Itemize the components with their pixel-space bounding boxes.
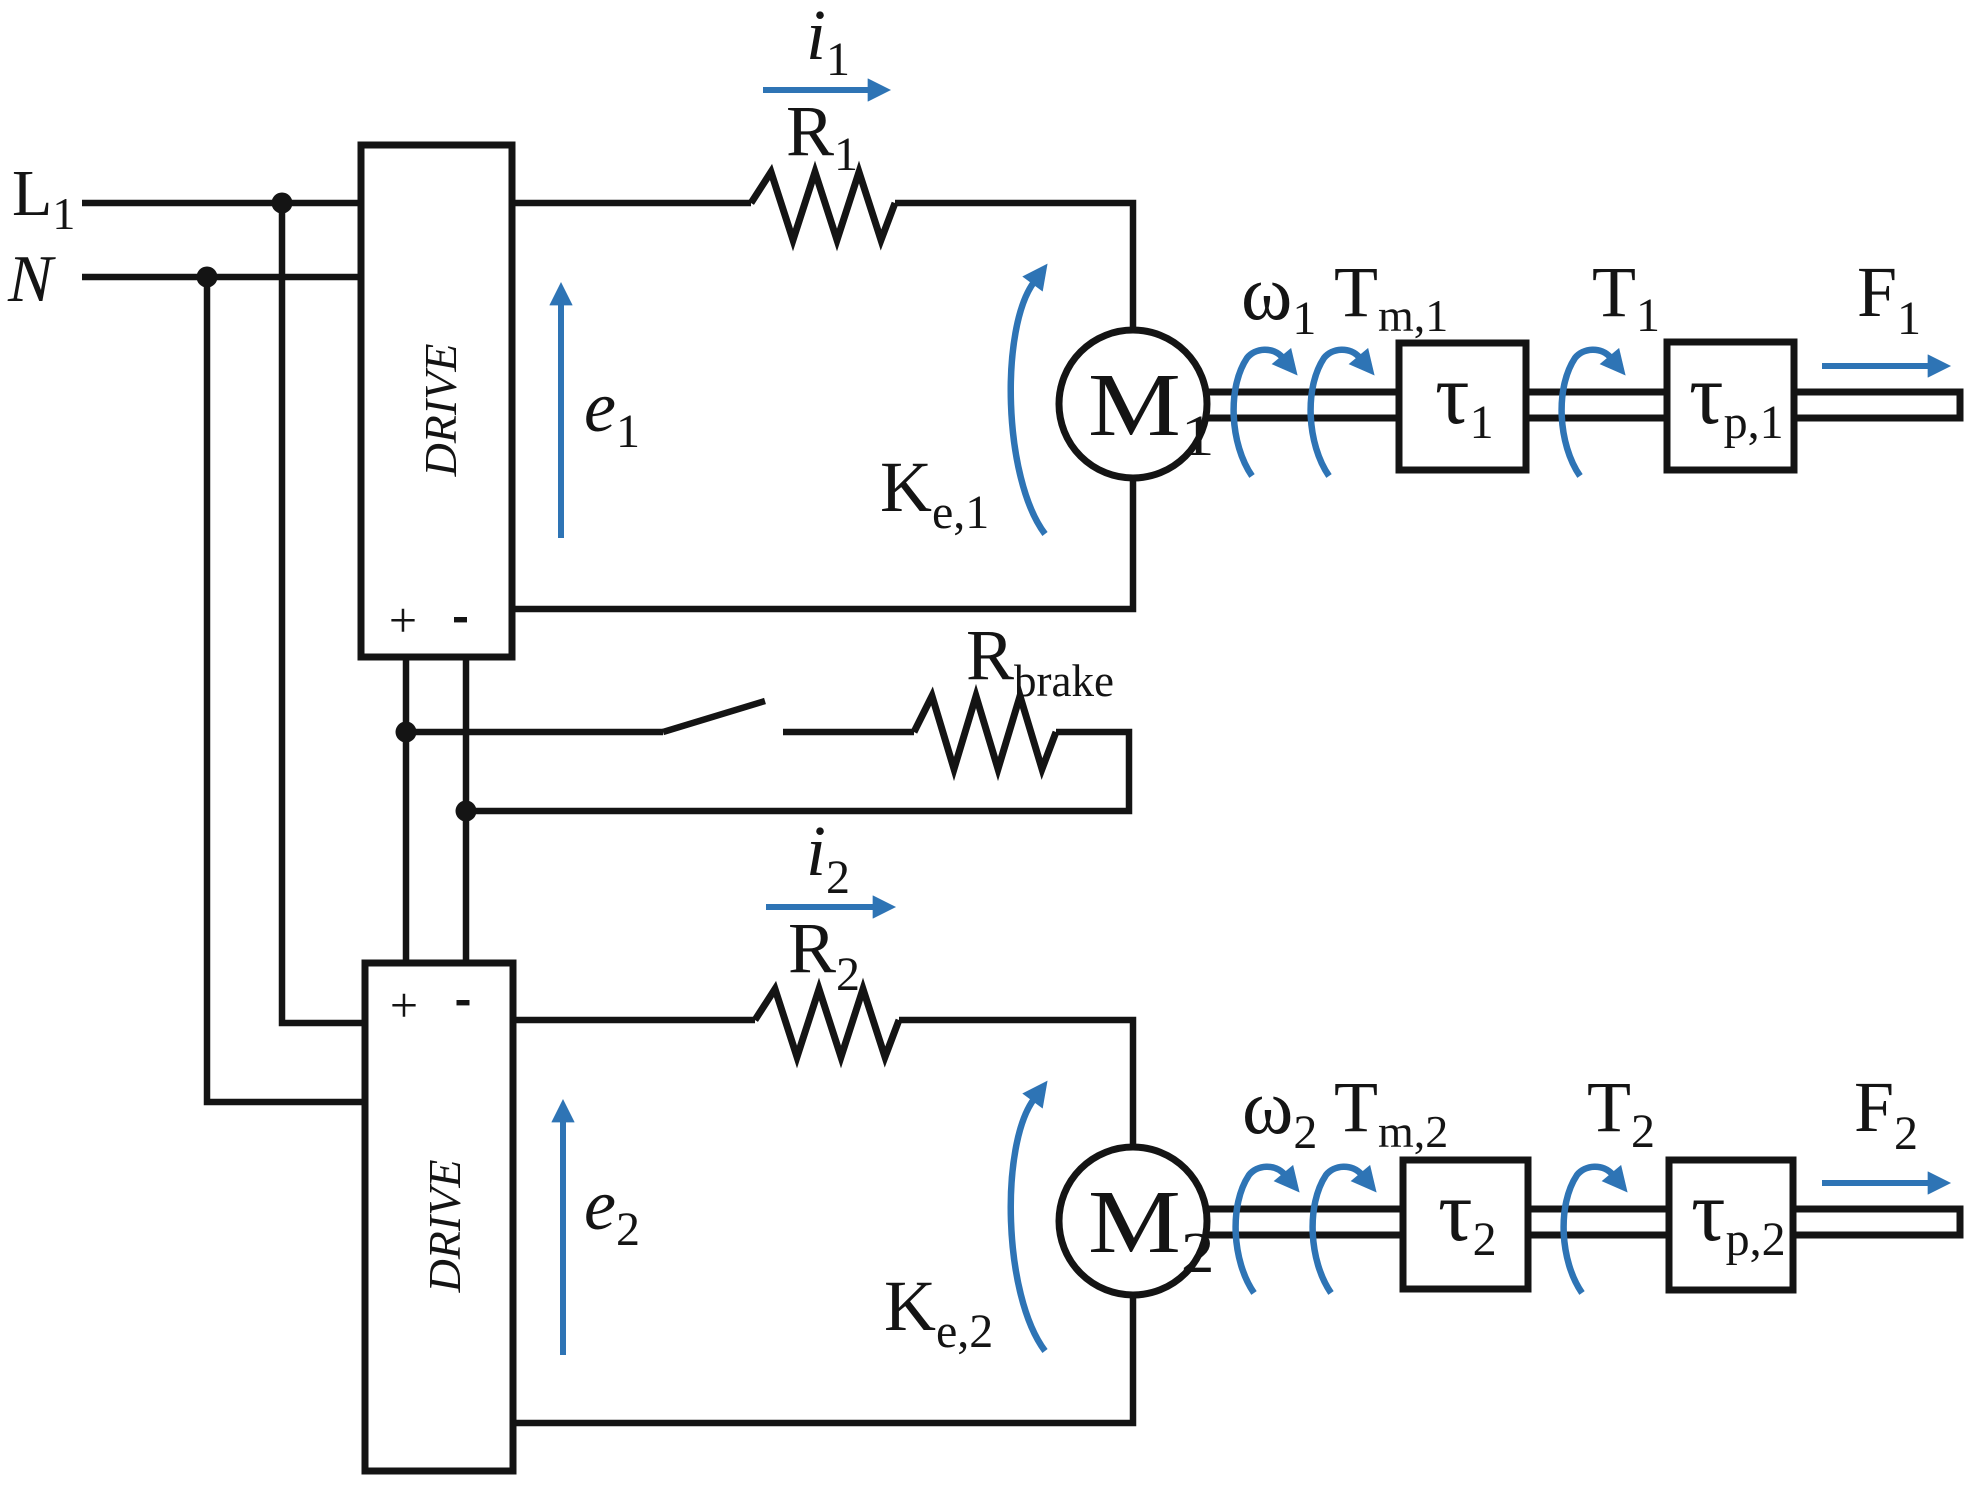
svg-text:+: + xyxy=(390,977,418,1033)
shaft 1 end cap xyxy=(1957,389,1964,422)
resistor R1 xyxy=(751,172,895,240)
shaft 2 upper line xyxy=(1207,1206,1403,1213)
arc T1 xyxy=(1562,350,1611,476)
resistor Rbrake xyxy=(914,696,1056,769)
arc omega2 xyxy=(1236,1167,1285,1293)
shaft 1b lower line xyxy=(1526,415,1667,422)
wire switch contact to Rbrake xyxy=(783,729,914,736)
arc Ke1 xyxy=(1011,282,1045,534)
arrow e2 xyxy=(560,1120,566,1355)
arc Tm2 xyxy=(1313,1167,1362,1293)
wire N feed xyxy=(82,274,361,281)
arrow i2 xyxy=(766,904,875,910)
arrow F2 xyxy=(1822,1180,1930,1186)
shaft 2 end cap xyxy=(1957,1206,1964,1239)
shaft 1 lower line xyxy=(1207,415,1399,422)
svg-text:DRIVE: DRIVE xyxy=(415,344,466,478)
shaft 2b lower line xyxy=(1528,1232,1669,1239)
junction brake bottom xyxy=(456,801,477,822)
shaft 1c lower line xyxy=(1794,415,1959,422)
arc Ke2 xyxy=(1011,1099,1045,1351)
wire loop1 top left xyxy=(512,200,751,207)
arc Tm1 xyxy=(1311,350,1360,476)
resistor R2 xyxy=(755,989,899,1057)
gear box tau1 xyxy=(1399,343,1526,470)
svg-text:DRIVE: DRIVE xyxy=(419,1160,470,1294)
shaft 1b upper line xyxy=(1526,389,1667,396)
shaft 1c upper line xyxy=(1794,389,1959,396)
drive block U2 xyxy=(365,963,513,1471)
shaft 2 lower line xyxy=(1207,1232,1403,1239)
motor M1 xyxy=(1059,330,1207,478)
shaft 2c upper line xyxy=(1793,1206,1959,1213)
gear box tau2 xyxy=(1403,1160,1528,1289)
arrow i1 xyxy=(763,87,870,93)
junction brake top xyxy=(396,722,417,743)
shaft 2b upper line xyxy=(1528,1206,1669,1213)
wire U1 minus terminal down xyxy=(463,657,470,963)
junction on N wire xyxy=(197,267,218,288)
arc omega1 xyxy=(1234,350,1283,476)
wire from N junction down to drive 2 xyxy=(207,277,368,1102)
wire to switch xyxy=(406,729,663,736)
arrow e1 xyxy=(558,303,564,538)
junction on L1 wire xyxy=(272,193,293,214)
motor M2 xyxy=(1059,1147,1207,1295)
wire loop2 bottom xyxy=(513,1292,1133,1423)
pulley box taup1 xyxy=(1667,342,1794,470)
wire U1 plus terminal down xyxy=(403,657,410,963)
wire loop2 top right xyxy=(899,1020,1133,1150)
wire loop2 top left xyxy=(513,1017,755,1024)
shaft 1 upper line xyxy=(1207,389,1399,396)
drive block U1 xyxy=(361,145,512,657)
arrow F1 xyxy=(1822,363,1930,369)
label - terminal U1 xyxy=(454,617,467,622)
wire loop1 top right xyxy=(895,203,1133,333)
wire from L1 junction down to drive 2 xyxy=(282,203,368,1023)
svg-text:N: N xyxy=(7,242,56,316)
label - terminal U2 xyxy=(457,1000,470,1005)
switch blade xyxy=(663,701,765,732)
shaft 2c lower line xyxy=(1793,1232,1959,1239)
pulley box taup2 xyxy=(1669,1160,1793,1290)
wire Rbrake to right corner and return xyxy=(466,732,1129,811)
arc T2 xyxy=(1564,1167,1613,1293)
wire loop1 bottom xyxy=(512,475,1133,609)
svg-text:+: + xyxy=(389,592,417,648)
wire L1 feed xyxy=(82,200,361,207)
